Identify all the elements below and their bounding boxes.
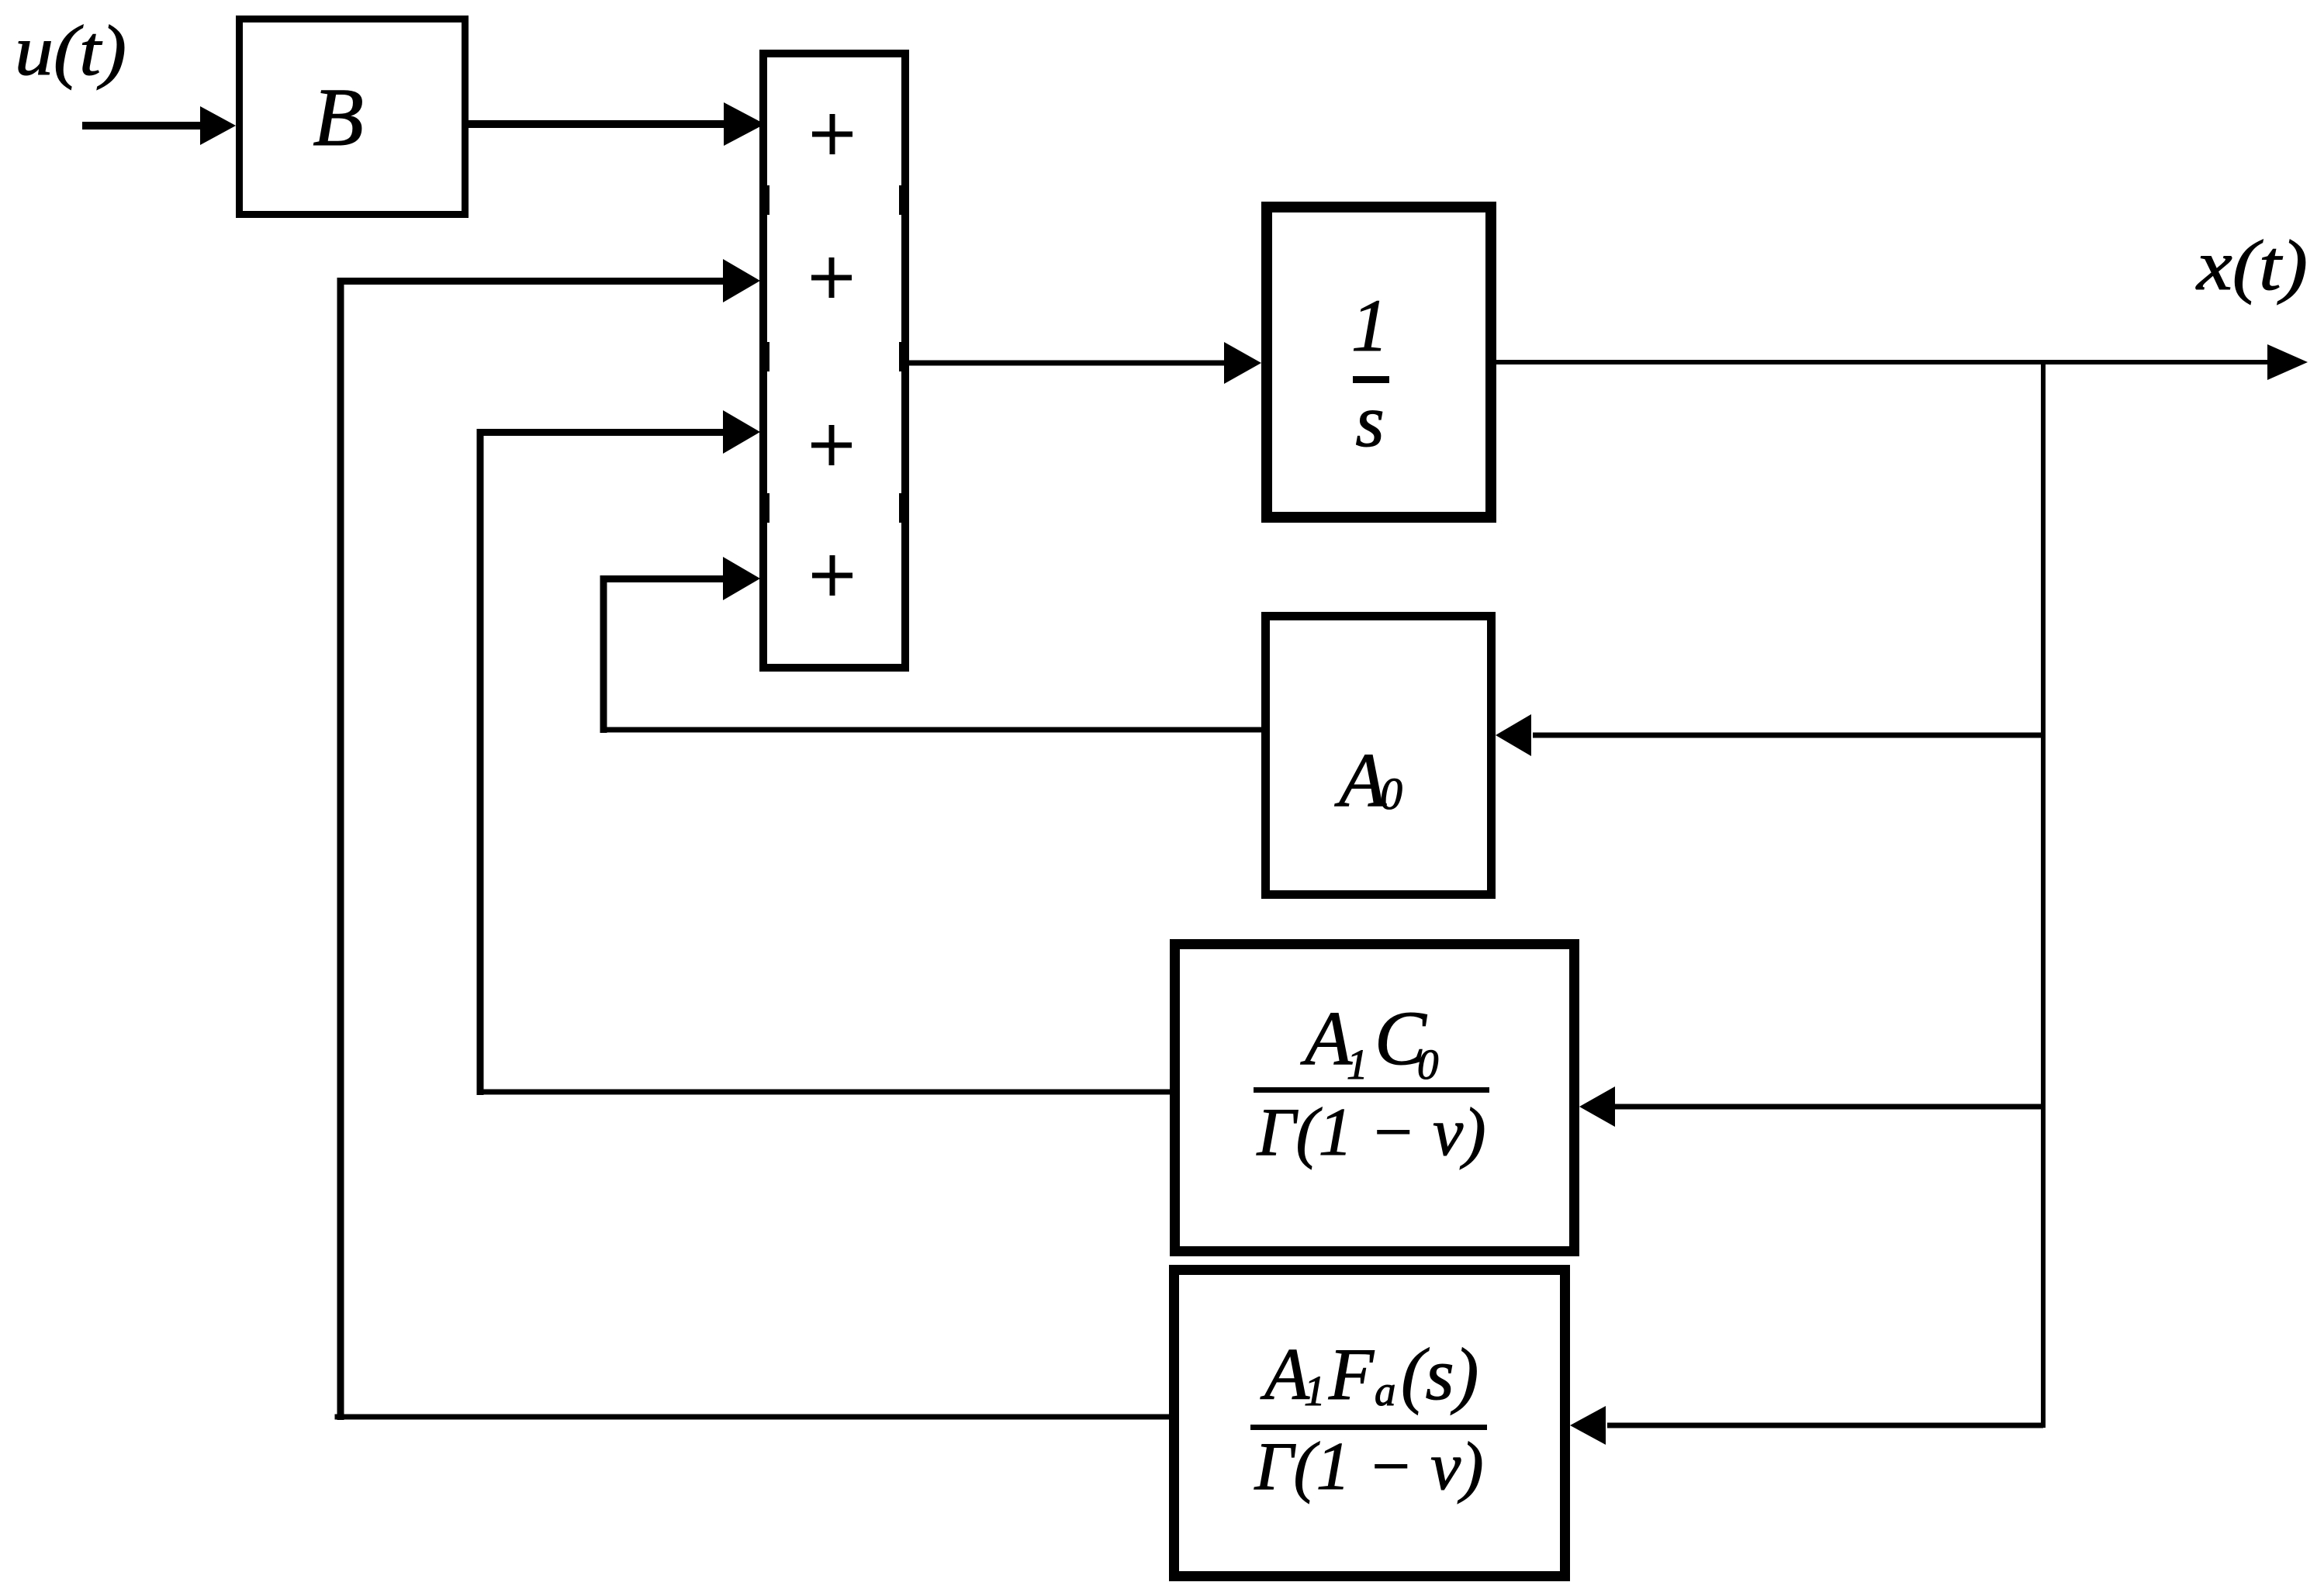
summer cell nub right 1	[899, 185, 909, 215]
block B	[240, 19, 465, 215]
svg-text:B: B	[313, 72, 363, 164]
wire B to summer	[469, 120, 726, 128]
arrowhead input 2	[723, 259, 760, 302]
svg-text:A: A	[1260, 1333, 1310, 1415]
svg-text:A: A	[1334, 737, 1387, 823]
wire integrator to output	[1496, 360, 2268, 364]
wire u(t) input	[82, 122, 202, 130]
arrowhead output x(t)	[2267, 344, 2308, 380]
svg-text:1: 1	[1304, 1367, 1326, 1415]
svg-text:Γ(1 − ν): Γ(1 − ν)	[1254, 1429, 1483, 1504]
arrowhead into B	[200, 106, 236, 145]
svg-text:F: F	[1328, 1333, 1375, 1415]
wire A1Fa output	[335, 1415, 1174, 1420]
summer cell nub left 2	[759, 342, 769, 371]
wire A1C0 output	[477, 1090, 1171, 1095]
svg-text:Γ(1 − ν): Γ(1 − ν)	[1256, 1095, 1485, 1170]
svg-text:s: s	[1355, 379, 1384, 462]
svg-text:(s): (s)	[1401, 1333, 1478, 1415]
wire feedback to input 4 (horizontal)	[600, 575, 727, 582]
plus sign 4	[812, 555, 852, 596]
arrowhead input 3	[723, 410, 760, 454]
fraction bar of A1Fa block	[1250, 1425, 1487, 1430]
plus sign 1	[812, 114, 852, 154]
wire feedback to input 2 (vertical)	[337, 278, 344, 1420]
arrowhead into A0	[1496, 714, 1531, 756]
block A1C0/Gamma(1-v)	[1175, 945, 1575, 1252]
svg-text:0: 0	[1417, 1041, 1439, 1088]
plus sign 3	[811, 425, 852, 465]
arrowhead input 4	[723, 557, 760, 600]
summer cell nub right 3	[899, 493, 909, 523]
fraction bar of A1C0 block	[1254, 1087, 1489, 1093]
summer cell nub right 2	[899, 342, 909, 371]
summer cell nub left 3	[759, 493, 769, 523]
arrowhead input 1	[724, 102, 765, 146]
svg-text:a: a	[1375, 1367, 1396, 1415]
svg-text:0: 0	[1380, 769, 1402, 819]
summing block	[763, 54, 905, 668]
summer cell nub left 1	[759, 185, 769, 215]
wire feedback to input 2 (horizontal)	[337, 278, 726, 285]
svg-text:u(t): u(t)	[15, 11, 126, 90]
fraction bar of 1/s	[1353, 376, 1389, 383]
block A1Fa(s)/Gamma(1-v)	[1174, 1270, 1565, 1577]
wire feedback to input 3 (vertical)	[477, 429, 484, 1095]
wire summer to integrator	[909, 361, 1226, 366]
svg-text:1: 1	[1351, 284, 1389, 367]
plus sign 2	[811, 257, 852, 298]
arrowhead into A1Fa	[1570, 1406, 1606, 1445]
wire trunk to A0 input	[1533, 733, 2043, 738]
wire A0 output	[600, 727, 1262, 733]
wire feedback to input 4 (vertical)	[600, 575, 607, 733]
svg-text:x(t): x(t)	[2195, 226, 2308, 305]
wire trunk to A1Fa input	[1607, 1423, 2043, 1428]
wire trunk to A1C0 input	[1615, 1104, 2043, 1110]
block A0	[1266, 617, 1492, 895]
svg-text:1: 1	[1347, 1041, 1368, 1088]
wire feedback to input 3 (horizontal)	[477, 429, 726, 436]
arrowhead into A1C0	[1579, 1086, 1615, 1127]
arrowhead into integrator	[1224, 342, 1261, 384]
block 1/s integrator	[1267, 207, 1491, 517]
svg-text:A: A	[1300, 995, 1353, 1081]
wire feedback trunk vertical	[2041, 362, 2046, 1428]
